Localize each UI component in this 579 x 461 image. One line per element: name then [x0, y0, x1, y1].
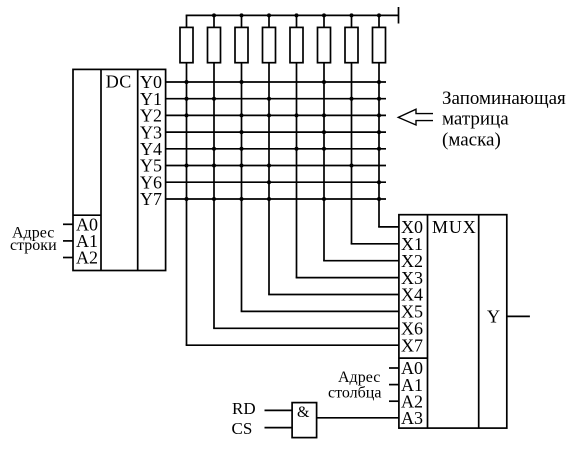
wire bit line column 7 to X1	[351, 63, 399, 244]
mask dot Y7 col8	[377, 197, 381, 201]
mask dot Y6 col4	[267, 180, 271, 184]
svg-text:матрица: матрица	[442, 109, 509, 130]
junction rail col5	[295, 13, 299, 17]
wire bit line column 6 to X2	[323, 63, 399, 261]
and-gate U1	[292, 403, 317, 438]
svg-text:MUX: MUX	[432, 217, 477, 237]
mask dot Y2 col5	[295, 113, 299, 117]
power terminal +U	[398, 7, 400, 24]
junction rail col4	[267, 13, 271, 17]
mask dot Y1 col1	[185, 97, 189, 101]
svg-text:DC: DC	[106, 72, 132, 92]
wire A0 input (DC)	[63, 223, 73, 225]
svg-text:&: &	[297, 404, 310, 421]
resistor R5	[290, 15, 303, 62]
mask dot Y1 col8	[377, 97, 381, 101]
wire bit line column 2 to X6	[213, 63, 399, 329]
mask dot Y1 col4	[267, 97, 271, 101]
svg-text:A3: A3	[401, 408, 423, 428]
wire CS	[265, 427, 293, 429]
mask dot Y7 col1	[185, 197, 189, 201]
wire Y output	[507, 315, 530, 317]
mask dot Y7 col6	[322, 197, 326, 201]
junction rail col8	[377, 13, 381, 17]
junction rail col6	[322, 13, 326, 17]
mask dot Y7 col2	[212, 197, 216, 201]
arrow pointer to matrix	[398, 109, 433, 125]
mask dot Y7 col4	[267, 197, 271, 201]
mask dot Y3 col6	[322, 130, 326, 134]
svg-text:X7: X7	[401, 335, 423, 355]
wire A0 input (MUX)	[389, 367, 399, 369]
wire word line Y0	[166, 81, 386, 83]
mask dot Y2 col1	[185, 113, 189, 117]
svg-text:строки: строки	[10, 237, 57, 254]
svg-text:столбца: столбца	[328, 385, 381, 402]
wire word line Y7	[166, 198, 386, 200]
wire word line Y3	[166, 131, 386, 133]
wire bit line column 1 to X7	[186, 63, 399, 346]
junction rail col7	[350, 13, 354, 17]
mask dot Y0 col1	[185, 80, 189, 84]
mask dot Y2 col4	[267, 113, 271, 117]
mask dot Y4 col3	[240, 147, 244, 151]
resistor R2	[208, 15, 221, 62]
mask dot Y1 col2	[212, 97, 216, 101]
mask dot Y2 col8	[377, 113, 381, 117]
resistor R8	[373, 15, 386, 62]
wire A2 input (MUX)	[389, 400, 399, 402]
wire and-gate output to A3	[317, 417, 399, 419]
mask dot Y3 col8	[377, 130, 381, 134]
wire word line Y4	[166, 148, 386, 150]
resistor R4	[263, 15, 276, 62]
resistor R1	[180, 15, 193, 62]
svg-text:CS: CS	[232, 419, 253, 438]
mask dot Y4 col5	[295, 147, 299, 151]
mask dot Y5 col7	[350, 164, 354, 168]
svg-text:RD: RD	[232, 399, 256, 418]
wire word line Y6	[166, 181, 386, 183]
wire RD	[265, 409, 293, 411]
mask dot Y5 col3	[240, 164, 244, 168]
wire A2 input (DC)	[63, 257, 73, 259]
wire bit line column 3 to X5	[241, 63, 399, 312]
mask dot Y4 col2	[212, 147, 216, 151]
svg-text:Адрес: Адрес	[338, 369, 380, 386]
mask dot Y2 col6	[322, 113, 326, 117]
wire bit line column 5 to X3	[296, 63, 399, 278]
svg-text:Y: Y	[487, 307, 500, 327]
wire A1 input (DC)	[63, 240, 73, 242]
mask dot Y0 col6	[322, 80, 326, 84]
wire bit line column 8 to X0	[378, 63, 399, 227]
mask dot Y7 col3	[240, 197, 244, 201]
resistor R6	[318, 15, 331, 62]
mask dot Y0 col8	[377, 80, 381, 84]
svg-text:Y7: Y7	[140, 189, 162, 209]
mask dot Y6 col8	[377, 180, 381, 184]
multiplexer MUX	[399, 215, 507, 428]
svg-text:Запоминающая: Запоминающая	[442, 88, 566, 109]
mask dot Y5 col1	[185, 164, 189, 168]
decoder DC	[73, 69, 166, 270]
resistor R3	[235, 15, 248, 62]
mask dot Y3 col3	[240, 130, 244, 134]
junction rail col2	[212, 13, 216, 17]
wire power rail +U	[186, 14, 399, 16]
mask dot Y5 col4	[267, 164, 271, 168]
mask dot Y4 col8	[377, 147, 381, 151]
mask dot Y2 col3	[240, 113, 244, 117]
mask dot Y1 col7	[350, 97, 354, 101]
wire word line Y1	[166, 98, 386, 100]
wire word line Y2	[166, 114, 386, 116]
wire A1 input (MUX)	[389, 384, 399, 386]
mask dot Y0 col3	[240, 80, 244, 84]
svg-text:A2: A2	[76, 248, 98, 268]
junction rail col3	[240, 13, 244, 17]
mask dot Y5 col2	[212, 164, 216, 168]
wire bit line column 4 to X4	[268, 63, 399, 295]
mask dot Y4 col6	[322, 147, 326, 151]
svg-text:(маска): (маска)	[442, 130, 501, 151]
resistor R7	[345, 15, 358, 62]
wire word line Y5	[166, 165, 386, 167]
